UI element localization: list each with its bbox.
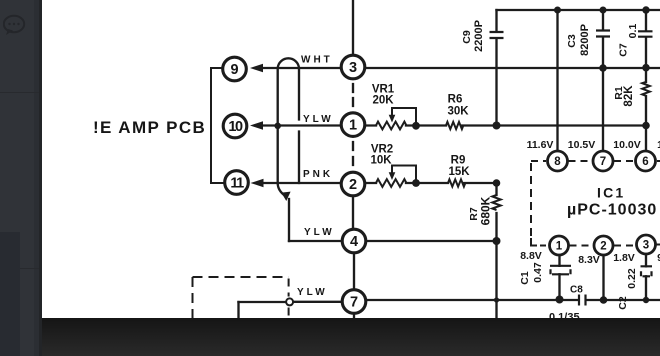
svg-text:10.5V: 10.5V — [568, 139, 595, 151]
svg-text:!E AMP PCB: !E AMP PCB — [93, 118, 206, 137]
svg-text:C2: C2 — [617, 296, 629, 310]
svg-text:30K: 30K — [447, 106, 469, 118]
svg-text:11.6V: 11.6V — [527, 139, 554, 151]
svg-text:1.8V: 1.8V — [613, 252, 635, 264]
svg-text:7: 7 — [600, 156, 606, 168]
svg-text:1: 1 — [556, 241, 563, 253]
svg-text:0.22: 0.22 — [626, 268, 638, 289]
svg-text:20K: 20K — [372, 95, 394, 107]
svg-text:11: 11 — [230, 176, 244, 192]
svg-text:0.47: 0.47 — [532, 262, 544, 283]
svg-text:680K: 680K — [479, 196, 493, 225]
svg-text:2200P: 2200P — [473, 20, 485, 52]
svg-text:R9: R9 — [451, 155, 466, 167]
svg-text:10: 10 — [228, 119, 243, 135]
svg-text:82K: 82K — [623, 85, 635, 107]
svg-text:8200P: 8200P — [579, 24, 591, 56]
svg-text:8: 8 — [554, 156, 561, 168]
svg-text:C7: C7 — [618, 43, 630, 57]
svg-text:2: 2 — [349, 177, 357, 193]
svg-text:WHT: WHT — [301, 55, 333, 66]
svg-text:R6: R6 — [448, 94, 463, 106]
svg-text:C3: C3 — [566, 34, 578, 48]
svg-text:PNK: PNK — [303, 169, 333, 180]
svg-text:YLW: YLW — [304, 227, 335, 238]
svg-text:C8: C8 — [570, 285, 583, 296]
svg-text:15K: 15K — [448, 166, 470, 178]
svg-text:YLW: YLW — [297, 287, 328, 298]
svg-text:0.1: 0.1 — [627, 24, 639, 39]
svg-text:C1: C1 — [519, 271, 531, 285]
svg-text:1: 1 — [349, 118, 357, 134]
svg-text:C9: C9 — [461, 30, 473, 44]
svg-text:2: 2 — [600, 241, 606, 253]
svg-text:10K: 10K — [370, 155, 392, 167]
svg-text:10.0V: 10.0V — [613, 139, 640, 151]
svg-text:8.3V: 8.3V — [578, 254, 600, 266]
svg-text:4: 4 — [350, 234, 358, 250]
svg-text:µPC-10030: µPC-10030 — [567, 202, 657, 219]
svg-text:7: 7 — [350, 295, 358, 311]
svg-text:3: 3 — [349, 60, 357, 76]
svg-text:6: 6 — [642, 156, 648, 168]
svg-text:3: 3 — [643, 240, 649, 252]
svg-text:IC1: IC1 — [597, 185, 625, 201]
svg-text:9: 9 — [230, 62, 238, 78]
svg-text:8.8V: 8.8V — [520, 250, 542, 262]
svg-text:YLW: YLW — [303, 114, 334, 125]
